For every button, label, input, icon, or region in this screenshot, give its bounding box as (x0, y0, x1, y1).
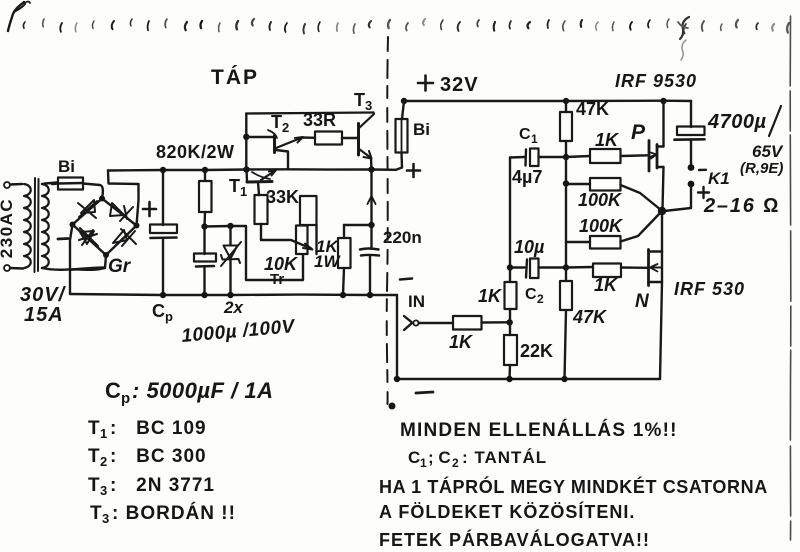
junction dot C2 right (563, 264, 569, 270)
fuse Bi (amp) (402, 101, 404, 119)
transistor T2 (246, 136, 273, 138)
svg-text:22K: 22K (520, 341, 553, 361)
minus sign at bridge (58, 237, 68, 240)
bottom negative rail (left PSU) (70, 294, 397, 295)
svg-text:33R: 33R (303, 110, 336, 130)
svg-text:230AC: 230AC (0, 198, 16, 258)
resistor 1K (to N gate) (566, 266, 593, 269)
svg-text:: BC 109: : BC 109 (110, 418, 207, 439)
svg-text:Bi: Bi (413, 120, 430, 139)
svg-text:P: P (631, 121, 646, 144)
svg-text:2: 2 (282, 120, 289, 135)
capacitor C1 4u7 (510, 156, 524, 159)
svg-text:1000µ /100V: 1000µ /100V (181, 316, 297, 347)
svg-text:: 5000µF / 1A: : 5000µF / 1A (132, 378, 273, 403)
svg-text:1: 1 (420, 456, 427, 470)
transistor T1 (245, 170, 248, 182)
wire fuse to bridge top corner (83, 184, 103, 199)
vertical feedback bus (565, 157, 567, 268)
svg-text:IRF 530: IRF 530 (674, 279, 745, 299)
resistor 47K top (565, 101, 567, 112)
wire PSU minus to amp ground (396, 295, 398, 379)
wire rail to 220n (370, 170, 372, 249)
svg-text:220n: 220n (383, 228, 422, 247)
minus mark top (400, 279, 412, 280)
junction dot 100K upper (563, 180, 569, 186)
wire terminal to primary bottom (10, 267, 23, 270)
svg-text:T: T (354, 90, 365, 110)
input terminal IN (404, 316, 412, 330)
separator end dot (389, 403, 396, 410)
svg-text:2: 2 (537, 292, 544, 306)
resistor 33R (302, 136, 315, 139)
capacitor Cp (electrolytic plates) (150, 225, 177, 234)
wire 1K1W top (344, 224, 372, 226)
junction dot T1/rail (243, 166, 249, 172)
svg-text:FETEK PÁRBAVÁLOGATVA!!: FETEK PÁRBAVÁLOGATVA!! (379, 529, 650, 550)
svg-text:(R,9E): (R,9E) (740, 160, 783, 177)
main positive rail (left PSU) (108, 169, 396, 170)
svg-text:47K: 47K (576, 99, 609, 119)
svg-text:65V: 65V (752, 142, 784, 161)
svg-text:2: 2 (100, 454, 107, 469)
svg-text:T: T (271, 112, 282, 132)
wire bridge bottom corner down (70, 255, 106, 270)
bottom ground rail (amp) (397, 378, 660, 380)
resistor 820K/2W (199, 181, 212, 212)
resistor 1K divider top (509, 268, 511, 283)
transformer primary terminal top (4, 182, 10, 188)
svg-text:IRF 9530: IRF 9530 (615, 71, 697, 91)
svg-text:T: T (88, 418, 100, 439)
svg-text:2: 2 (452, 456, 459, 470)
svg-text:1K: 1K (595, 130, 620, 150)
output terminal plus (688, 181, 695, 188)
svg-text:T: T (88, 475, 100, 496)
junction dot rail/820K (202, 167, 208, 173)
svg-text:; C: ; C (428, 448, 451, 467)
output node dot (658, 207, 666, 215)
svg-text:C: C (519, 126, 531, 143)
junction dot rail/P-fet (660, 98, 666, 104)
svg-text:32V: 32V (440, 74, 479, 96)
svg-text:30V/: 30V/ (20, 284, 67, 306)
top +32V rail (404, 99, 691, 102)
transformer primary terminal bottom (4, 265, 10, 271)
wire secondary top to fuse (42, 183, 57, 185)
svg-text:C: C (525, 286, 537, 303)
resistor 47K bottom (565, 268, 567, 282)
bridge rectifier Gr (73, 199, 103, 225)
zener diode ZX (229, 226, 231, 245)
svg-text:4700µ: 4700µ (707, 111, 767, 133)
junction dots ground rail (394, 376, 400, 382)
junction dot T3 emitter/rail (368, 166, 374, 172)
svg-text:MINDEN ELLENÁLLÁS 1%!!: MINDEN ELLENÁLLÁS 1%!! (400, 419, 678, 441)
svg-text:3: 3 (100, 483, 107, 498)
junction dot C1/47K/1K node (563, 154, 569, 160)
junction dot rail/Cp (160, 167, 166, 173)
svg-text:: BC 300: : BC 300 (110, 446, 207, 467)
junction dots bottom rail (160, 292, 166, 298)
svg-text:N: N (635, 291, 650, 312)
svg-text:33K: 33K (266, 187, 299, 207)
svg-text:T: T (90, 503, 102, 524)
junction dot rail/fuse (401, 98, 407, 104)
resistor 1K (to P gate) (566, 156, 590, 157)
svg-text:T: T (229, 176, 240, 196)
label +32V (418, 82, 433, 85)
label -K1 (699, 169, 706, 172)
capacitor 1000u (left of zener) (203, 227, 205, 255)
junction dot input node (507, 319, 513, 325)
wire terminal to node (664, 186, 691, 211)
capacitor 4700u (677, 127, 705, 136)
svg-text:1: 1 (100, 426, 107, 441)
top wire T2/T3 collector rail (246, 113, 373, 114)
plus under fuse (407, 169, 420, 172)
svg-text:820K/2W: 820K/2W (156, 142, 235, 162)
resistor 22K (509, 322, 511, 335)
mosfet P IRF9530 (648, 141, 651, 172)
vertical feed T2 base (245, 114, 247, 170)
mosfet N IRF530 (661, 211, 663, 252)
svg-text:1K: 1K (449, 332, 474, 352)
capacitor Cp wire top (162, 170, 164, 225)
transformer core lines (34, 178, 37, 272)
svg-text:: BORDÁN !!: : BORDÁN !! (112, 502, 236, 524)
resistor 1K input (419, 322, 454, 324)
trimmer 10K body (300, 196, 317, 225)
capacitor Cp wire bottom (162, 238, 164, 295)
svg-text:1: 1 (531, 132, 538, 146)
svg-text:C: C (105, 378, 121, 403)
wire terminal to primary top (10, 183, 22, 186)
svg-text:1: 1 (240, 184, 247, 199)
svg-text:: TANTÁL: : TANTÁL (462, 448, 547, 467)
transformer TR primary winding (24, 184, 31, 268)
svg-text:3: 3 (365, 98, 372, 113)
wire secondary bottom to bridge bottom (42, 268, 105, 270)
svg-text:IN: IN (408, 292, 425, 311)
svg-text:Tr: Tr (270, 271, 284, 288)
svg-text:K1: K1 (708, 169, 730, 188)
transformer TR secondary winding (42, 184, 49, 268)
wire bridge left corner to bottom rail (70, 225, 73, 295)
plus sign at bridge output (143, 208, 156, 211)
long vertical input coupling wire (509, 158, 511, 268)
svg-text:Gr: Gr (108, 256, 132, 277)
output cap 4700u wire (690, 101, 692, 127)
svg-text:100K: 100K (579, 216, 624, 236)
resistor 100K upper (566, 183, 590, 185)
svg-text:100K: 100K (578, 190, 623, 210)
dashed channel separator line (387, 37, 388, 404)
svg-text:3: 3 (102, 511, 109, 526)
junction dot rail/47K (563, 98, 569, 104)
svg-text:2x: 2x (223, 298, 244, 317)
svg-text:C: C (408, 448, 420, 467)
svg-text:1K: 1K (594, 275, 619, 295)
svg-text:1K: 1K (478, 286, 503, 306)
svg-text:: 2N 3771: : 2N 3771 (110, 475, 215, 496)
junction dot C2 left (507, 264, 513, 270)
svg-text:p: p (165, 309, 173, 324)
trimmer wiper wire + arrow (261, 240, 311, 249)
fuse Bi (left) (58, 178, 83, 190)
svg-text:4µ7: 4µ7 (512, 167, 542, 187)
capacitor C2 10u (510, 266, 525, 268)
svg-text:TÁP: TÁP (211, 66, 259, 89)
junction dot zener top (227, 223, 233, 229)
resistor 100K lower (566, 241, 590, 243)
svg-text:2–16 Ω: 2–16 Ω (703, 195, 780, 217)
svg-text:15A: 15A (24, 304, 64, 326)
wire bridge right corner to main rail (108, 171, 139, 226)
plus output (698, 191, 709, 193)
svg-text:C: C (152, 301, 165, 321)
svg-text:1W: 1W (314, 252, 341, 271)
svg-text:p: p (121, 390, 130, 407)
transistor T3 (357, 124, 360, 156)
minus mark bottom (416, 392, 433, 393)
output terminal minus (688, 164, 695, 171)
resistor 33K (255, 195, 268, 224)
junction dot 820K bottom (201, 223, 207, 229)
svg-text:10µ: 10µ (514, 237, 545, 257)
svg-text:A FÖLDEKET KÖZÖSÍTENI.: A FÖLDEKET KÖZÖSÍTENI. (379, 501, 635, 522)
node wire y226 (205, 226, 304, 280)
capacitor 220n (360, 247, 379, 250)
svg-text:Bi: Bi (58, 157, 75, 176)
svg-text:T: T (88, 446, 100, 467)
resistor 1K 1W (343, 225, 345, 238)
svg-text:47K: 47K (572, 307, 608, 327)
junction dot T2 base feed (243, 134, 249, 140)
junction dot 220n top branch (368, 222, 374, 228)
svg-text:HA 1 TÁPRÓL MEGY MINDKÉT CSATO: HA 1 TÁPRÓL MEGY MINDKÉT CSATORNA (379, 476, 768, 497)
